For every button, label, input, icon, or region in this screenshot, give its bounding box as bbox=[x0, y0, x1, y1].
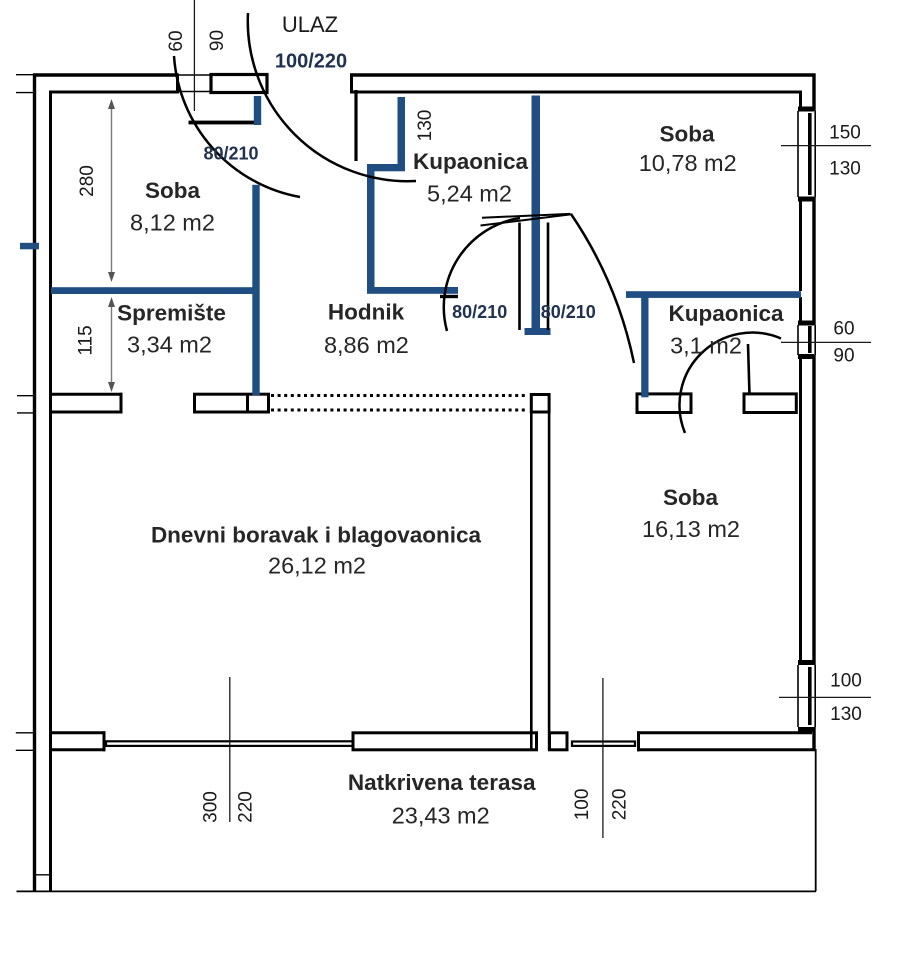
wire: top wall right section inner line bbox=[352, 91, 802, 94]
svg-text:130: 130 bbox=[830, 704, 862, 725]
wire: right wall inner segments bbox=[799, 91, 802, 735]
svg-text:3,1 m2: 3,1 m2 bbox=[670, 333, 742, 359]
svg-text:100/220: 100/220 bbox=[275, 51, 347, 73]
svg-text:60: 60 bbox=[833, 319, 854, 340]
partition: blue horizontal wall Soba 10,78 / Kupaonica 3,1 bbox=[626, 291, 801, 298]
wire: top wall right section left end cap bbox=[350, 74, 353, 94]
partition: Kupaonica 5,24 lower vertical bbox=[367, 164, 375, 294]
door: terrace sliding door 300/220 bar bbox=[106, 741, 355, 746]
wire: terrace right edge bbox=[815, 749, 817, 891]
svg-text:8,86 m2: 8,86 m2 bbox=[324, 332, 409, 358]
wire: top wall right section outer line bbox=[350, 73, 816, 76]
dimension: 100/220 divider line bottom bbox=[602, 678, 604, 838]
wire: Kupaonica 3,1 bottom band left box bbox=[637, 394, 691, 413]
partition: blue vertical wall Soba 8,12 / hall bbox=[252, 185, 259, 395]
partition: central blue wall bottom cap bbox=[525, 328, 551, 335]
partition: Kupaonica 5,24 jog horizontal bbox=[367, 164, 405, 171]
wire: top wall left box (outer+inner+cap) bbox=[33, 74, 178, 94]
wire: top wall pier box beside entrance bbox=[211, 75, 267, 93]
svg-text:90: 90 bbox=[833, 346, 854, 367]
window W3 100/130 in right wall bbox=[798, 660, 815, 732]
partition: blue stub at entrance bbox=[254, 96, 261, 125]
door arc: hall door to Soba 8,12 bbox=[174, 56, 300, 197]
wire: right exterior wall outer line bbox=[812, 74, 815, 751]
partition: blue horizontal wall Soba 8,12 / Spremiste bbox=[51, 287, 259, 294]
partition: Kupaonica 5,24 upper vertical bbox=[398, 97, 406, 167]
svg-text:ULAZ: ULAZ bbox=[282, 12, 338, 37]
svg-text:150: 150 bbox=[829, 123, 861, 144]
wire: bottom wall box 2 (middle) bbox=[353, 733, 537, 750]
door: leaf cross line 1 bbox=[481, 214, 572, 225]
wire: left exterior wall inner line bbox=[49, 91, 52, 892]
wire: bottom wall box 3 (right) bbox=[637, 731, 816, 751]
dimension arrow: 280 bbox=[108, 99, 115, 282]
svg-text:130: 130 bbox=[829, 159, 861, 180]
svg-text:Natkrivena terasa: Natkrivena terasa bbox=[348, 770, 536, 795]
wire: central wall (living room / Soba 16,13) double lines bbox=[531, 412, 549, 750]
wire: central wall top box bbox=[531, 395, 549, 413]
wire: bottom wall box 1 (left) bbox=[49, 731, 105, 751]
wire: partition band box right (hall to living room) bbox=[195, 394, 269, 412]
svg-text:280: 280 bbox=[77, 165, 98, 197]
svg-text:16,13 m2: 16,13 m2 bbox=[642, 516, 740, 542]
door arc: Kupaonica 3,1 door swing bbox=[679, 333, 781, 433]
door: hall double door right leaf jamb bbox=[547, 223, 550, 331]
svg-text:80/210: 80/210 bbox=[541, 302, 596, 322]
dimension: 150/130 divider line bbox=[781, 145, 871, 147]
door: hall double door left leaf jamb bbox=[518, 223, 521, 331]
wire: terrace bottom edge bbox=[17, 890, 817, 892]
svg-text:80/210: 80/210 bbox=[203, 144, 258, 164]
svg-text:60: 60 bbox=[166, 30, 187, 51]
svg-text:Soba: Soba bbox=[659, 122, 714, 147]
partition: Kupaonica 5,24 bottom horizontal bbox=[367, 287, 458, 294]
partition: blue vertical wall Kupaonica 3,1 / Soba 16,13 bbox=[641, 293, 648, 397]
dimension: 60/90 divider line bbox=[781, 341, 871, 343]
dimension: 100/130 divider line bbox=[779, 696, 871, 698]
tick marks on left wall top bbox=[16, 75, 52, 875]
wire: dotted open passage lower line bbox=[271, 409, 528, 412]
svg-text:80/210: 80/210 bbox=[452, 302, 507, 322]
svg-text:Dnevni boravak i blagovaonica: Dnevni boravak i blagovaonica bbox=[151, 523, 482, 548]
svg-text:90: 90 bbox=[207, 30, 228, 51]
svg-text:Soba: Soba bbox=[145, 178, 200, 203]
wire: dotted open passage upper line bbox=[271, 394, 528, 397]
wire: Kupaonica 5,24 left black jamb bbox=[354, 90, 357, 161]
svg-text:130: 130 bbox=[415, 110, 436, 142]
wire: black tick below blue wall end bbox=[440, 295, 458, 298]
dimension: 300/220 divider line bottom bbox=[229, 677, 231, 822]
window W2 60/90 in right wall bbox=[798, 321, 815, 360]
wire: entry stub wall (hall / Soba 8,12) bbox=[189, 121, 256, 125]
wire: bottom wall small box right of central wall bbox=[550, 733, 568, 750]
svg-text:300: 300 bbox=[200, 791, 221, 823]
svg-text:8,12 m2: 8,12 m2 bbox=[130, 209, 215, 235]
svg-text:220: 220 bbox=[235, 791, 256, 823]
door arc: entrance door swing bbox=[248, 13, 416, 181]
wire: Kupaonica 3,1 bottom band right box bbox=[744, 394, 796, 413]
door arc: Kupaonica 5,24 door swing bbox=[444, 218, 520, 331]
door: leaf cross line 2 bbox=[482, 214, 570, 218]
wire: partition band box left (Spremiste to living room) bbox=[49, 393, 122, 414]
dimension arrow: 115 bbox=[108, 297, 115, 392]
svg-text:Spremište: Spremište bbox=[117, 301, 226, 326]
door: terrace sliding door 100/220 bar bbox=[572, 742, 635, 746]
svg-text:Soba: Soba bbox=[663, 485, 718, 510]
partition: blue tick on left wall bbox=[20, 243, 39, 250]
svg-text:220: 220 bbox=[610, 789, 631, 821]
dimension: vertical line at entrance 60/90 bbox=[193, 0, 195, 111]
door arc: Soba 16,13 door swing bbox=[571, 214, 634, 363]
svg-text:26,12 m2: 26,12 m2 bbox=[268, 553, 366, 579]
svg-text:100: 100 bbox=[572, 789, 593, 821]
svg-text:100: 100 bbox=[830, 671, 862, 692]
svg-text:Hodnik: Hodnik bbox=[328, 300, 405, 325]
window: entrance sidelight thin lines bbox=[178, 75, 211, 92]
door: Kupaonica 3,1 door leaf bbox=[748, 344, 750, 395]
svg-text:3,34 m2: 3,34 m2 bbox=[127, 332, 212, 358]
window W1 150/130 in right wall bbox=[798, 107, 815, 202]
svg-text:10,78 m2: 10,78 m2 bbox=[639, 150, 737, 176]
wire: left exterior wall outer line bbox=[33, 74, 36, 892]
svg-text:Kupaonica: Kupaonica bbox=[668, 301, 784, 326]
svg-text:Kupaonica: Kupaonica bbox=[413, 149, 529, 174]
svg-text:5,24 m2: 5,24 m2 bbox=[427, 181, 512, 207]
svg-text:23,43 m2: 23,43 m2 bbox=[392, 803, 490, 829]
partition: central blue wall Kupaonica 5,24 / Soba 10,78 bbox=[532, 96, 541, 331]
svg-text:115: 115 bbox=[76, 325, 97, 355]
